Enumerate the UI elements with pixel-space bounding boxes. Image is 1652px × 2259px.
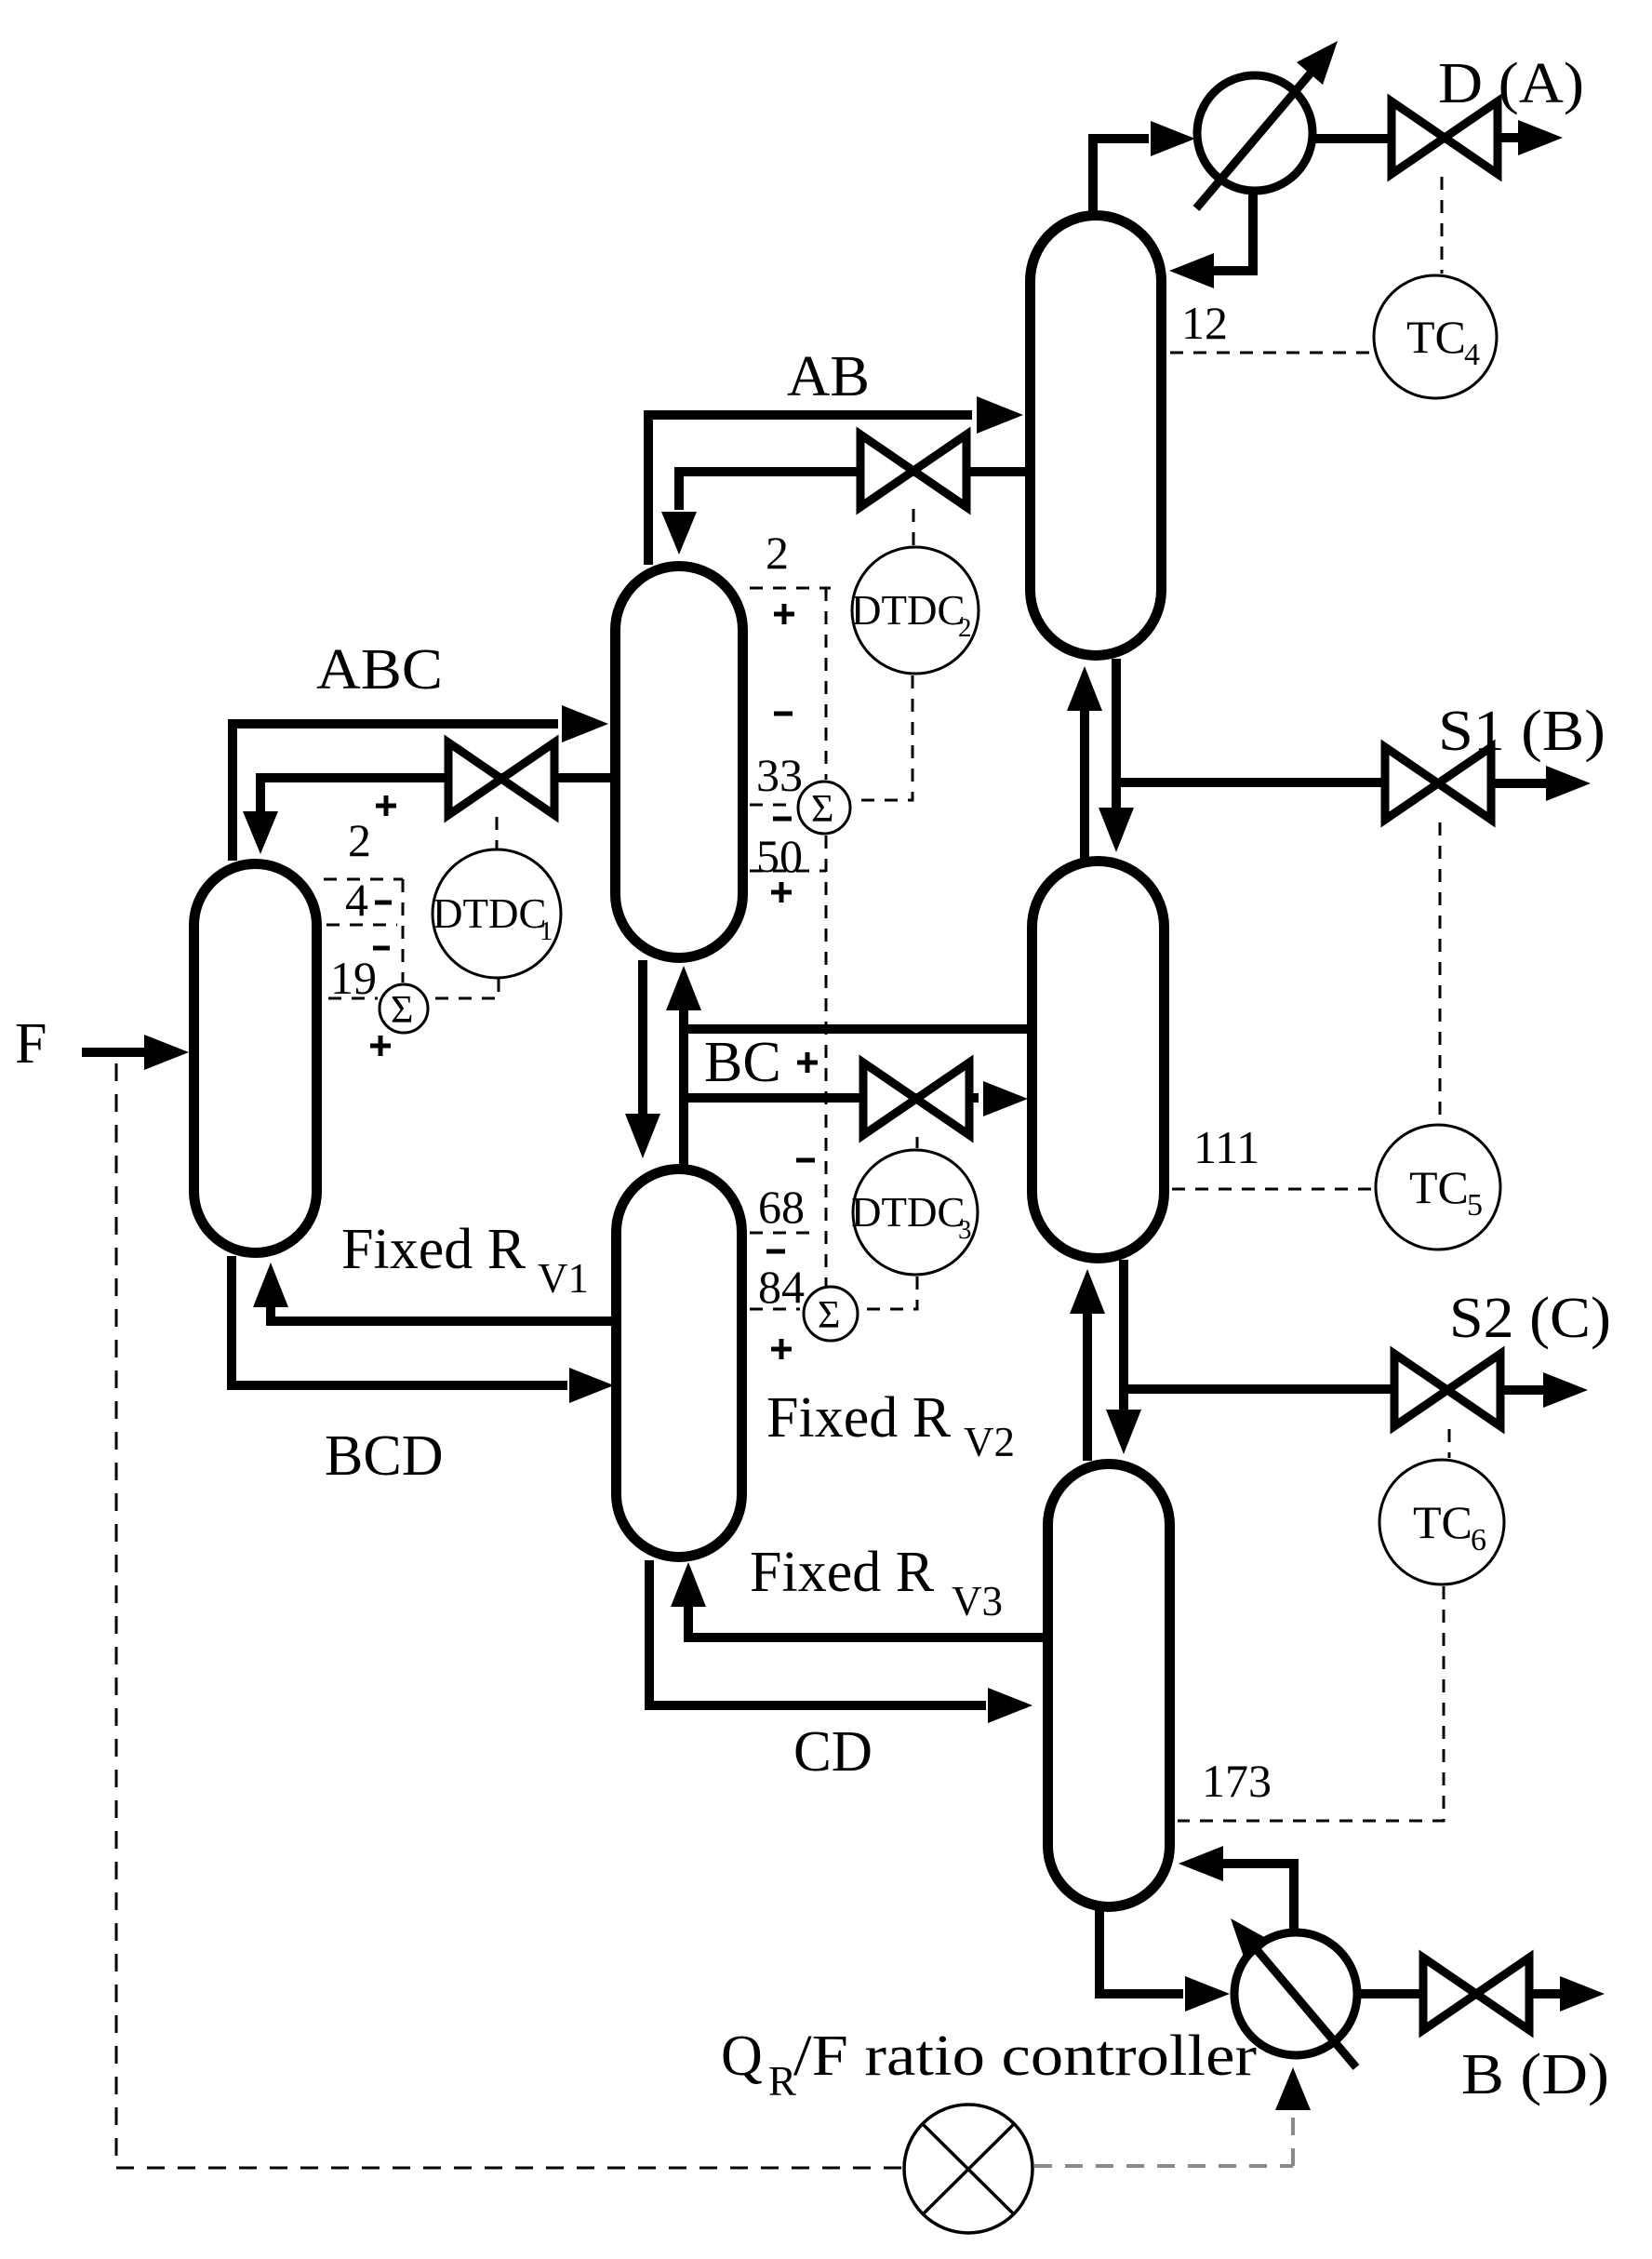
svg-text:6: 6 <box>1471 1523 1486 1557</box>
svg-text:Fixed R: Fixed R <box>766 1386 952 1450</box>
column C6 <box>1048 1464 1170 1907</box>
heat-exchanger condenser circle <box>1197 75 1312 191</box>
wire vapor return reboiler to C6 <box>1223 1864 1294 1934</box>
svg-text:19: 19 <box>330 952 377 1004</box>
wire S1 side stream <box>1116 778 1387 787</box>
op-amp DTDC2 controller <box>852 547 979 674</box>
wire C4 overhead to condenser <box>1093 139 1149 212</box>
node plus sign <box>376 795 396 816</box>
node CD arrowhead into C6 <box>988 1688 1032 1723</box>
wire F feed <box>82 1048 147 1057</box>
svg-text:BC: BC <box>704 1031 781 1094</box>
wire C5 vapor up to C4 <box>1080 711 1089 860</box>
wire dashed stage4 tap C1 <box>326 924 397 927</box>
svg-text:173: 173 <box>1202 1755 1272 1807</box>
wire dashed stage68 tap C3 <box>750 1232 818 1235</box>
valve BC valve <box>863 1063 969 1135</box>
node plus sign <box>370 1036 391 1056</box>
svg-text:Σ: Σ <box>391 989 413 1032</box>
node arrowhead into condenser <box>1151 121 1195 156</box>
node B arrowhead <box>1560 1976 1605 2012</box>
wire dashed long vertical chain lower to sum3 <box>825 835 828 1286</box>
node diagonal arrowhead <box>1297 41 1338 85</box>
svg-text:2: 2 <box>766 527 789 579</box>
node minus sign <box>373 946 390 951</box>
column C5 <box>1032 862 1165 1259</box>
node arrowhead into C6 <box>1179 1846 1223 1881</box>
wire BC upper line to C5 <box>684 1024 1034 1034</box>
svg-text:DTDC: DTDC <box>433 890 547 937</box>
node down arrowhead into C3 top <box>625 1114 660 1158</box>
node minus sign <box>773 817 792 822</box>
svg-text:CD: CD <box>793 1720 873 1784</box>
valve D valve <box>1392 101 1498 174</box>
node reflux arrowhead into C2 top <box>661 512 697 555</box>
svg-text:3: 3 <box>958 1215 972 1245</box>
wire dashed F signal to ratio <box>116 2167 902 2170</box>
svg-text:S2 (C): S2 (C) <box>1449 1287 1611 1350</box>
wire C2 liquid down to C3 <box>638 960 647 1114</box>
node reflux arrowhead into C4 <box>1169 253 1214 288</box>
svg-text:33: 33 <box>756 749 803 801</box>
svg-text:50: 50 <box>756 830 803 882</box>
wire AB reflux from C4 to C2 top <box>679 472 1027 510</box>
wire condenser diagonal <box>1196 70 1313 208</box>
column C4 <box>1031 216 1162 656</box>
valve ABC reflux valve <box>448 742 554 815</box>
svg-text:AB: AB <box>787 345 870 408</box>
valve S1 valve <box>1385 747 1491 820</box>
column C3 <box>617 1170 742 1557</box>
node sum1 circle <box>380 984 428 1033</box>
svg-text:ABC: ABC <box>316 638 443 702</box>
svg-text:1: 1 <box>540 916 553 946</box>
wire C6 bottoms to reboiler <box>1099 1909 1183 1994</box>
node ratio X circle <box>904 2105 1032 2233</box>
wire dashed stage50 tap C2 <box>750 870 826 873</box>
svg-text:12: 12 <box>1181 297 1228 349</box>
node up arrowhead into C4 bottom <box>1067 666 1102 711</box>
wire C3 vapor up to C2 <box>679 1010 688 1166</box>
wire dashed DTDC3 to sum3 <box>861 1277 917 1309</box>
svg-text:84: 84 <box>758 1261 805 1313</box>
svg-text:Q: Q <box>721 2025 763 2088</box>
svg-text:R: R <box>768 2058 796 2105</box>
op-amp DTDC3 controller <box>853 1150 978 1275</box>
node plus sign <box>797 1052 818 1073</box>
node BC arrowhead into C5 <box>983 1081 1028 1116</box>
wire dashed S1 valve to TC5 <box>1439 822 1442 1122</box>
wire RV3 vapor return C6 to C3 bottom <box>688 1607 1046 1637</box>
svg-text:DTDC: DTDC <box>851 587 966 634</box>
wire condenser outlet to D valve <box>1312 134 1393 143</box>
wire dashed ratio to reboiler up <box>1291 2092 1295 2166</box>
wire dashed valve to DTDC1 <box>496 817 499 849</box>
op-amp DTDC1 controller <box>433 849 561 978</box>
wire dashed D valve to TC4 <box>1441 177 1444 274</box>
node dashed arrowhead up to reboiler <box>1275 2067 1311 2110</box>
wire RV1 vapor return C3 to C1 bottom <box>271 1307 614 1321</box>
wire dashed stage2 tap C2 <box>750 587 831 590</box>
node sum3 circle <box>804 1287 858 1341</box>
wire reboiler diagonal <box>1254 1946 1356 2067</box>
node up arrowhead into C2 bottom <box>666 966 701 1010</box>
wire D outlet <box>1498 133 1518 142</box>
svg-text:B (D): B (D) <box>1461 2043 1609 2106</box>
node arrowhead into reboiler <box>1185 1976 1230 2012</box>
wire CD bottoms C3 to C6 <box>649 1560 986 1705</box>
node minus sign <box>766 1250 785 1254</box>
wire C5 liquid down to C6 <box>1119 1260 1128 1410</box>
wire ABC reflux from C2 to C1 top <box>260 778 613 811</box>
valve B valve <box>1423 1958 1529 2030</box>
wire dashed ratio to reboiler right <box>1034 2164 1293 2168</box>
wire BC valve line to C5 <box>684 1093 979 1103</box>
node minus sign <box>796 1158 815 1163</box>
node plus sign <box>771 882 792 902</box>
wire S2 outlet <box>1500 1385 1543 1395</box>
svg-text:TC: TC <box>1409 1161 1469 1213</box>
svg-text:Fixed R: Fixed R <box>750 1541 935 1604</box>
wire dashed stage84 tap C3 <box>750 1308 800 1311</box>
node down arrowhead into C6 top <box>1106 1410 1141 1454</box>
wire dashed stage2 tap C1 <box>324 878 403 881</box>
wire dashed long vertical chain upper <box>825 588 828 780</box>
svg-text:2: 2 <box>958 613 972 643</box>
column C1 prefractionator <box>194 864 317 1253</box>
svg-text:TC: TC <box>1413 1496 1472 1548</box>
wire dashed TC6 to stage173 tap <box>1178 1586 1444 1821</box>
node ABC arrowhead into C2 <box>562 705 608 742</box>
wire dashed stage12 tap C4 <box>1170 352 1372 354</box>
wire C1 overhead riser to ABC line <box>233 724 558 861</box>
node down arrowhead into C5 top <box>1099 808 1134 852</box>
svg-text:TC: TC <box>1406 311 1466 363</box>
svg-text:111: 111 <box>1193 1121 1259 1173</box>
svg-text:S1 (B): S1 (B) <box>1438 700 1605 763</box>
wire reflux condenser to C4 <box>1214 192 1253 271</box>
svg-text:Fixed R: Fixed R <box>341 1218 526 1281</box>
wire dashed stage33 tap C2 <box>750 804 796 807</box>
op-amp TC6 controller <box>1379 1460 1504 1584</box>
svg-text:68: 68 <box>758 1181 805 1233</box>
svg-text:2: 2 <box>348 814 371 866</box>
wire S1 outlet <box>1491 779 1546 788</box>
svg-text:V1: V1 <box>538 1255 589 1302</box>
wire reboiler outlet to B valve <box>1357 1989 1425 1998</box>
svg-text:5: 5 <box>1467 1188 1483 1223</box>
svg-text:Σ: Σ <box>818 1294 840 1337</box>
wire BCD bottoms C1 to C3 <box>232 1256 567 1385</box>
wire dashed stage19 tap C1 <box>328 997 378 1000</box>
column C2 <box>616 567 743 958</box>
svg-text:Σ: Σ <box>811 788 833 831</box>
node BCD arrowhead into C3 <box>569 1368 614 1403</box>
svg-text:D (A): D (A) <box>1438 52 1584 115</box>
node F arrowhead <box>144 1035 189 1070</box>
svg-text:V3: V3 <box>952 1578 1003 1624</box>
node S1 arrowhead <box>1546 766 1591 801</box>
node RV3 arrowhead into C3 bottom <box>671 1562 706 1607</box>
node reflux arrowhead into C1 top <box>243 811 278 854</box>
node plus sign <box>774 604 794 624</box>
svg-text:4: 4 <box>1464 338 1480 372</box>
node AB arrowhead into C4 <box>977 396 1023 434</box>
wire dashed stage111 tap C5 <box>1172 1188 1374 1191</box>
wire dashed valve to DTDC3 <box>916 1137 919 1148</box>
node up arrowhead into C5 bottom <box>1070 1269 1105 1314</box>
node S2 arrowhead <box>1543 1372 1588 1408</box>
wire C4 liquid down to C5 <box>1112 659 1121 808</box>
wire S2 side stream <box>1124 1384 1396 1394</box>
wire dashed F signal down <box>115 1063 118 2168</box>
node D arrowhead <box>1518 120 1563 155</box>
op-amp TC5 controller <box>1376 1125 1500 1250</box>
svg-text:V2: V2 <box>964 1419 1015 1465</box>
wire C2 overhead riser to AB line <box>648 415 972 565</box>
wire dashed valve to DTDC2 <box>913 509 915 545</box>
node RV1 arrowhead into C1 bottom <box>253 1263 288 1307</box>
node minus sign <box>375 901 392 905</box>
op-amp TC4 controller <box>1374 275 1497 398</box>
wire dashed DTDC2 to sum2 <box>854 675 913 800</box>
svg-text:4: 4 <box>345 874 368 926</box>
node plus sign <box>771 1339 792 1359</box>
node minus sign <box>774 712 793 716</box>
node sum2 circle <box>798 782 850 834</box>
svg-text:F: F <box>15 1012 47 1076</box>
wire dashed DTDC1 to sum1 <box>432 979 499 998</box>
svg-text:/F ratio controller: /F ratio controller <box>793 2025 1257 2088</box>
wire B outlet <box>1529 1989 1560 1998</box>
valve S2 valve <box>1394 1354 1500 1426</box>
node diagonal arrowhead <box>1231 1918 1272 1962</box>
valve AB reflux valve <box>860 434 966 507</box>
heat-exchanger reboiler circle <box>1234 1932 1357 2055</box>
wire dashed vertical to sum1 <box>402 879 405 982</box>
svg-text:BCD: BCD <box>325 1424 443 1488</box>
wire C6 vapor up to C5 <box>1083 1314 1092 1461</box>
wire dashed S2 valve to TC6 <box>1448 1429 1451 1458</box>
svg-text:DTDC: DTDC <box>851 1189 966 1236</box>
